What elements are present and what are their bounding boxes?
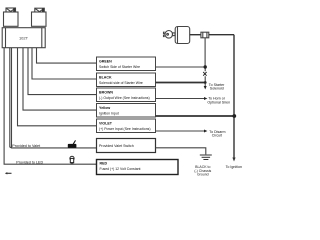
wire yellow to bus [156, 115, 235, 117]
svg-text:BROWN: BROWN [99, 90, 113, 94]
cut mark X [203, 72, 206, 76]
LED icon D1 [70, 156, 74, 164]
inline connector [201, 32, 209, 38]
junction node C [232, 114, 236, 118]
svg-text:Optional Siren: Optional Siren [207, 101, 230, 105]
label box GREEN [97, 57, 156, 71]
svg-text:(+) Power Input (See Instructi: (+) Power Input (See Instructions) [99, 127, 151, 131]
svg-text:Ignition Input: Ignition Input [99, 112, 119, 116]
wire black row [32, 48, 97, 79]
arrow to starter solenoid [204, 86, 207, 90]
svg-text:102T: 102T [19, 36, 29, 41]
junction node A [204, 65, 207, 68]
ignition wire to bus [209, 34, 234, 36]
legend arrow bottom-left [7, 172, 12, 174]
label box VIOLET [97, 119, 156, 133]
wire green row [37, 48, 97, 63]
wire valet to ground [156, 148, 206, 155]
wire violet arrow [156, 130, 205, 132]
svg-text:Fused (+) 12 Volt Constant: Fused (+) 12 Volt Constant [100, 167, 141, 171]
relay R1 left box [4, 12, 19, 26]
svg-text:BLACK: BLACK [99, 75, 112, 79]
svg-text:VIOLET: VIOLET [99, 121, 113, 125]
wire black to junction [156, 82, 206, 84]
svg-text:Solenoid side of Starter Wire: Solenoid side of Starter Wire [99, 81, 143, 85]
right bus wire [233, 35, 235, 158]
wire LED row [4, 48, 96, 165]
wire yellow row [23, 48, 97, 110]
svg-text:Provided to Valet: Provided to Valet [12, 144, 40, 148]
svg-text:Ground: Ground [197, 173, 209, 177]
svg-text:(-) Output Wire (See Instructi: (-) Output Wire (See Instructions) [99, 96, 150, 100]
relay module U1 cap left [6, 8, 16, 12]
wire violet row [18, 48, 97, 126]
svg-text:RED: RED [100, 161, 108, 165]
svg-text:Provided Valet Switch: Provided Valet Switch [99, 144, 134, 148]
wire valet row [10, 48, 97, 148]
wire green to junction [156, 66, 206, 68]
svg-text:Switch Side of Starter Wire: Switch Side of Starter Wire [99, 65, 140, 69]
label box BROWN [97, 88, 156, 102]
wire connector drop [204, 38, 206, 83]
relay module U1 cap right [35, 8, 45, 12]
svg-text:Provided to LED: Provided to LED [16, 160, 43, 164]
svg-text:Yellow: Yellow [99, 106, 110, 110]
svg-text:To Ignition: To Ignition [226, 165, 242, 169]
ground [200, 155, 212, 160]
arrow to ignition [232, 158, 235, 162]
control unit body [2, 28, 45, 48]
svg-text:GREEN: GREEN [99, 59, 112, 63]
wire brown row [28, 48, 97, 95]
valet switch icon S1 [68, 140, 77, 148]
key head [164, 31, 176, 39]
junction node B [204, 81, 207, 84]
relay R2 right box [32, 12, 47, 26]
ignition wire from switch [190, 34, 201, 36]
label box BLACK [97, 73, 156, 87]
ignition switch cylinder [175, 27, 190, 44]
wire brown arrow [156, 98, 205, 100]
svg-text:Circuit: Circuit [212, 134, 222, 138]
label box Yellow [97, 104, 156, 118]
label box RED [97, 160, 179, 175]
svg-text:Solenoid: Solenoid [210, 87, 224, 91]
label box valet switch [97, 139, 156, 153]
wire to starter solenoid [204, 83, 206, 87]
